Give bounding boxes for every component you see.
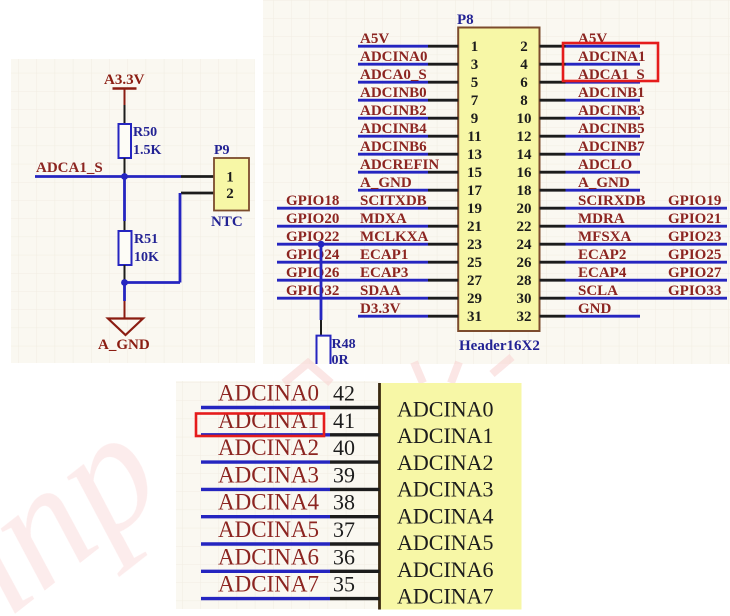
svg-text:ADCINA3: ADCINA3 (397, 477, 494, 502)
pin name ADCINA0 (397, 396, 494, 421)
svg-text:GPIO25: GPIO25 (668, 247, 721, 263)
label Header16X2 (459, 338, 540, 354)
wire (277, 297, 428, 300)
highlight box ADCINA1/ADCA1_S (563, 43, 658, 81)
pin name ADCINA6 (397, 557, 494, 582)
svg-text:ADCINB2: ADCINB2 (360, 103, 427, 119)
net label ECAP2 (578, 247, 626, 263)
svg-text:GPIO22: GPIO22 (286, 229, 339, 245)
svg-text:ADCLO: ADCLO (578, 157, 632, 173)
wire (201, 570, 330, 573)
svg-text:0R: 0R (332, 353, 350, 368)
svg-text:ADCINA1: ADCINA1 (218, 408, 319, 433)
pin 25 of P8 (428, 255, 482, 271)
wire (201, 406, 330, 409)
right schematic sheet background (263, 0, 730, 364)
node junction (121, 173, 128, 180)
svg-text:1.5K: 1.5K (133, 143, 162, 158)
svg-text:A_GND: A_GND (360, 175, 412, 191)
wire (566, 81, 641, 84)
pin name ADCINA7 (397, 584, 494, 609)
wire (566, 189, 641, 192)
net label ECAP4 (578, 265, 627, 281)
svg-text:ADCINA6: ADCINA6 (397, 557, 494, 582)
svg-text:19: 19 (467, 201, 482, 217)
svg-text:1: 1 (471, 39, 479, 55)
svg-text:D3.3V: D3.3V (360, 301, 401, 317)
wire (124, 221, 126, 231)
svg-text:GPIO21: GPIO21 (668, 211, 721, 227)
wire (566, 135, 641, 138)
svg-text:1: 1 (226, 170, 234, 186)
svg-text:NTC: NTC (211, 214, 243, 230)
svg-text:29: 29 (467, 291, 482, 307)
net label GPIO33 (668, 283, 721, 299)
svg-text:P9: P9 (214, 143, 230, 158)
svg-text:2: 2 (520, 39, 528, 55)
pin number 41 (333, 408, 355, 433)
svg-text:30: 30 (517, 291, 532, 307)
svg-text:ADCINA4: ADCINA4 (397, 503, 494, 528)
pin name ADCINA5 (397, 530, 494, 555)
wire (320, 244, 323, 320)
net label ADCINB2 (360, 103, 427, 119)
resistor R48 (317, 336, 356, 368)
pin 29 of P8 (428, 291, 482, 307)
svg-text:20: 20 (517, 201, 532, 217)
wire (566, 279, 728, 282)
svg-text:ECAP4: ECAP4 (578, 265, 627, 281)
svg-text:GPIO32: GPIO32 (286, 283, 339, 299)
wire (277, 207, 428, 210)
svg-text:MCLKXA: MCLKXA (360, 229, 428, 245)
svg-text:A5V: A5V (360, 31, 389, 47)
wire (358, 117, 428, 120)
pin 7 of P8 (428, 93, 479, 109)
pin number 40 (333, 435, 355, 460)
resistor R50 (119, 124, 162, 158)
net label ADCINA3 (218, 462, 319, 487)
net label ADCINA4 (218, 490, 319, 515)
svg-text:39: 39 (333, 462, 355, 487)
net label ADCINA0 (360, 49, 428, 65)
wire (201, 460, 330, 463)
pin 9 of P8 (428, 111, 478, 127)
svg-text:GPIO27: GPIO27 (668, 265, 722, 281)
power port A3.3V (104, 72, 145, 105)
wire (566, 243, 728, 246)
svg-text:16: 16 (517, 165, 533, 181)
pin 31 of P8 (428, 309, 482, 325)
svg-text:GPIO19: GPIO19 (668, 193, 721, 209)
wire (35, 175, 181, 178)
svg-text:36: 36 (333, 544, 355, 569)
left schematic sheet background (11, 59, 255, 363)
wire (358, 81, 428, 84)
pin 2 of P8 (520, 39, 565, 55)
net label ADCINA0 (218, 381, 319, 406)
svg-text:28: 28 (517, 273, 532, 289)
svg-text:ADCINB4: ADCINB4 (360, 121, 427, 137)
svg-text:ADCINA6: ADCINA6 (218, 544, 319, 569)
wire (201, 488, 330, 491)
net label SCLA (578, 283, 618, 299)
svg-text:11: 11 (467, 129, 481, 145)
svg-text:ADCINB7: ADCINB7 (578, 139, 645, 155)
wire (125, 281, 181, 284)
wire (330, 433, 380, 436)
wire (330, 515, 380, 518)
wire (277, 225, 428, 228)
wire (124, 301, 126, 318)
wire (566, 45, 641, 48)
wire (277, 261, 428, 264)
net label GPIO18 (286, 193, 339, 209)
svg-text:7: 7 (471, 93, 479, 109)
connector P9 (214, 143, 249, 211)
net label GPIO26 (286, 265, 340, 281)
pin 28 of P8 (517, 273, 566, 289)
pin 16 of P8 (517, 165, 566, 181)
pin number 36 (333, 544, 355, 569)
svg-text:GPIO20: GPIO20 (286, 211, 339, 227)
svg-text:2: 2 (226, 186, 234, 202)
svg-text:38: 38 (333, 490, 355, 515)
svg-text:MFSXA: MFSXA (578, 229, 631, 245)
wire (358, 99, 428, 102)
pin 10 of P8 (517, 111, 566, 127)
svg-text:18: 18 (517, 183, 532, 199)
wire (179, 193, 182, 283)
svg-text:SCITXDB: SCITXDB (360, 193, 427, 209)
pin 1 of P8 (428, 39, 478, 55)
wire (566, 99, 641, 102)
wire (201, 433, 330, 436)
pin 30 of P8 (517, 291, 566, 307)
svg-text:ADCINA1: ADCINA1 (397, 423, 494, 448)
pin number 35 (333, 572, 355, 597)
wire (358, 45, 428, 48)
connector P8 (457, 12, 540, 331)
svg-text:R50: R50 (133, 125, 157, 140)
wire (123, 177, 126, 222)
svg-text:37: 37 (333, 517, 355, 542)
pin 18 of P8 (517, 183, 566, 199)
svg-text:9: 9 (471, 111, 479, 127)
wire (566, 297, 728, 300)
svg-text:24: 24 (517, 237, 533, 253)
svg-text:ADCINA0: ADCINA0 (360, 49, 428, 65)
wire (330, 488, 380, 491)
svg-text:A_GND: A_GND (578, 175, 630, 191)
pin 13 of P8 (428, 147, 482, 163)
net label ADCINA2 (218, 435, 319, 460)
svg-text:ECAP2: ECAP2 (578, 247, 626, 263)
svg-text:ADCINA7: ADCINA7 (397, 584, 494, 609)
svg-text:R51: R51 (134, 232, 158, 247)
pin number 1 (226, 170, 234, 186)
net label ADCINB1 (578, 85, 645, 101)
pin 17 of P8 (428, 183, 483, 199)
svg-text:14: 14 (517, 147, 533, 163)
svg-text:ADCINA0: ADCINA0 (397, 396, 494, 421)
pin 19 of P8 (428, 201, 482, 217)
svg-text:ADCA0_S: ADCA0_S (360, 67, 427, 83)
svg-text:GND: GND (578, 301, 612, 317)
svg-text:ADCINA5: ADCINA5 (397, 530, 494, 555)
pin 5 of P8 (428, 75, 478, 91)
svg-text:ADCINA2: ADCINA2 (218, 435, 319, 460)
svg-text:ADCINB0: ADCINB0 (360, 85, 427, 101)
svg-text:22: 22 (517, 219, 532, 235)
pin number 38 (333, 490, 355, 515)
svg-text:ADCINA3: ADCINA3 (218, 462, 319, 487)
wire (566, 153, 641, 156)
net label MCLKXA (360, 229, 428, 245)
net label A_GND (360, 175, 412, 191)
svg-text:42: 42 (333, 381, 355, 406)
svg-text:8: 8 (520, 93, 528, 109)
chip body (cropped) (380, 383, 522, 610)
net label SDAA (360, 283, 401, 299)
svg-text:Header16X2: Header16X2 (459, 338, 540, 354)
svg-text:SDAA: SDAA (360, 283, 401, 299)
net label ADCINA7 (218, 572, 319, 597)
net label GPIO25 (668, 247, 721, 263)
net label SCIRXDB (578, 193, 646, 209)
net label MDRA (578, 211, 625, 227)
net label ADCA1_S (578, 67, 645, 83)
net label SCITXDB (360, 193, 427, 209)
svg-text:4: 4 (520, 57, 528, 73)
svg-text:ADCINB5: ADCINB5 (578, 121, 645, 137)
svg-text:35: 35 (333, 572, 355, 597)
wire (330, 460, 380, 463)
pin 14 of P8 (517, 147, 566, 163)
svg-text:ADCINB6: ADCINB6 (360, 139, 427, 155)
net label GPIO24 (286, 247, 340, 263)
bottom crop sheet background (176, 381, 380, 609)
net label ADCINB4 (360, 121, 427, 137)
wire (124, 265, 126, 283)
pin name ADCINA3 (397, 477, 494, 502)
svg-text:ADCREFIN: ADCREFIN (360, 157, 439, 173)
svg-text:10K: 10K (134, 250, 159, 265)
net label ECAP3 (360, 265, 408, 281)
net label GND (578, 301, 612, 317)
net label ADCINB5 (578, 121, 645, 137)
svg-text:GPIO24: GPIO24 (286, 247, 340, 263)
svg-text:GPIO18: GPIO18 (286, 193, 339, 209)
net label GPIO32 (286, 283, 339, 299)
wire (566, 207, 728, 210)
wire (330, 542, 380, 545)
net label ADCINA1 (578, 49, 646, 65)
net label A_GND (578, 175, 630, 191)
svg-text:23: 23 (467, 237, 482, 253)
svg-text:A3.3V: A3.3V (104, 72, 145, 88)
net label ECAP1 (360, 247, 408, 263)
svg-text:ADCINB1: ADCINB1 (578, 85, 645, 101)
wire (358, 63, 428, 66)
net label D3.3V (360, 301, 401, 317)
pin 20 of P8 (517, 201, 566, 217)
node junction (121, 279, 128, 286)
wire (330, 406, 380, 409)
pin 11 of P8 (428, 129, 482, 145)
svg-text:GPIO33: GPIO33 (668, 283, 721, 299)
net label GPIO22 (286, 229, 339, 245)
svg-text:12: 12 (517, 129, 532, 145)
pin name ADCINA2 (397, 450, 494, 475)
svg-text:SCIRXDB: SCIRXDB (578, 193, 646, 209)
svg-text:ADCINA1: ADCINA1 (578, 49, 646, 65)
pin number 42 (333, 381, 355, 406)
net label MDXA (360, 211, 407, 227)
net label GPIO23 (668, 229, 721, 245)
svg-text:17: 17 (467, 183, 483, 199)
net label ADCINB7 (578, 139, 645, 155)
svg-text:ADCINA7: ADCINA7 (218, 572, 319, 597)
wire (566, 261, 728, 264)
net label GPIO20 (286, 211, 339, 227)
pin 32 of P8 (517, 309, 566, 325)
svg-text:SCLA: SCLA (578, 283, 618, 299)
net label ADCINB3 (578, 103, 645, 119)
svg-text:40: 40 (333, 435, 355, 460)
svg-text:21: 21 (467, 219, 482, 235)
pin 2 of P9 (181, 192, 214, 195)
svg-text:6: 6 (520, 75, 528, 91)
svg-text:25: 25 (467, 255, 482, 271)
svg-text:ECAP3: ECAP3 (360, 265, 408, 281)
svg-text:MDXA: MDXA (360, 211, 407, 227)
svg-text:26: 26 (517, 255, 533, 271)
wire (358, 315, 428, 318)
wire (320, 320, 322, 336)
net label GPIO19 (668, 193, 721, 209)
pin 6 of P8 (520, 75, 565, 91)
net label ADCINB0 (360, 85, 427, 101)
net label ADCA1_S (36, 160, 103, 176)
pin 1 of P9 (181, 175, 214, 178)
svg-text:41: 41 (333, 408, 355, 433)
net label ADCINB6 (360, 139, 427, 155)
svg-text:13: 13 (467, 147, 482, 163)
wire (566, 171, 641, 174)
svg-text:GPIO23: GPIO23 (668, 229, 721, 245)
net label ADCA0_S (360, 67, 427, 83)
pin 27 of P8 (428, 273, 483, 289)
svg-text:hnp: hnp (0, 377, 192, 616)
net label A5V (578, 31, 607, 47)
wire (566, 315, 641, 318)
wire (330, 597, 380, 600)
pin name ADCINA4 (397, 503, 494, 528)
svg-text:ADCINA2: ADCINA2 (397, 450, 494, 475)
net label ADCLO (578, 157, 632, 173)
pin 22 of P8 (517, 219, 566, 235)
wire (277, 279, 428, 282)
svg-text:5: 5 (471, 75, 479, 91)
net label MFSXA (578, 229, 631, 245)
svg-text:A5V: A5V (578, 31, 607, 47)
svg-text:ECAP1: ECAP1 (360, 247, 408, 263)
watermark (0, 357, 512, 616)
wire (277, 243, 428, 246)
wire (123, 283, 126, 302)
svg-text:GPIO26: GPIO26 (286, 265, 340, 281)
highlight box ADCINA1 (196, 414, 324, 437)
wire (358, 153, 428, 156)
net label ADCREFIN (360, 157, 439, 173)
net label ADCINA1 (218, 408, 319, 433)
svg-text:31: 31 (467, 309, 482, 325)
svg-text:P8: P8 (457, 12, 474, 28)
pin 21 of P8 (428, 219, 482, 235)
wire (124, 158, 126, 177)
net label A5V (360, 31, 389, 47)
pin 8 of P8 (520, 93, 565, 109)
pin 15 of P8 (428, 165, 482, 181)
svg-text:A_GND: A_GND (98, 337, 150, 353)
pin name ADCINA1 (397, 423, 494, 448)
pin 4 of P8 (520, 57, 565, 73)
resistor R51 (119, 231, 160, 265)
net label ADCINA6 (218, 544, 319, 569)
pin 23 of P8 (428, 237, 482, 253)
wire (330, 570, 380, 573)
pin number 2 (226, 186, 234, 202)
net label ADCINA5 (218, 517, 319, 542)
wire (124, 105, 126, 124)
pin 24 of P8 (517, 237, 566, 253)
svg-text:ADCINB3: ADCINB3 (578, 103, 645, 119)
pin number 39 (333, 462, 355, 487)
wire (358, 171, 428, 174)
svg-text:32: 32 (517, 309, 532, 325)
net label GPIO27 (668, 265, 722, 281)
svg-text:ADCINA0: ADCINA0 (218, 381, 319, 406)
wire (358, 135, 428, 138)
pin 12 of P8 (517, 129, 566, 145)
wire (566, 117, 641, 120)
wire (566, 225, 728, 228)
pin number 37 (333, 517, 355, 542)
svg-text:ADCINA4: ADCINA4 (218, 490, 319, 515)
wire (201, 542, 330, 545)
node junction (318, 241, 325, 248)
pin 3 of P8 (428, 57, 478, 73)
net label GPIO21 (668, 211, 721, 227)
svg-text:10: 10 (517, 111, 532, 127)
pin 26 of P8 (517, 255, 566, 271)
svg-text:15: 15 (467, 165, 482, 181)
svg-text:MDRA: MDRA (578, 211, 625, 227)
wire (201, 515, 330, 518)
svg-text:3: 3 (471, 57, 479, 73)
svg-text:27: 27 (467, 273, 483, 289)
svg-text:ADCA1_S: ADCA1_S (36, 160, 103, 176)
svg-text:R48: R48 (332, 337, 356, 352)
wire (201, 597, 330, 600)
wire (358, 189, 428, 192)
label NTC (211, 214, 243, 230)
svg-text:ADCINA5: ADCINA5 (218, 517, 319, 542)
ground A_GND (98, 319, 150, 354)
wire (566, 63, 641, 66)
